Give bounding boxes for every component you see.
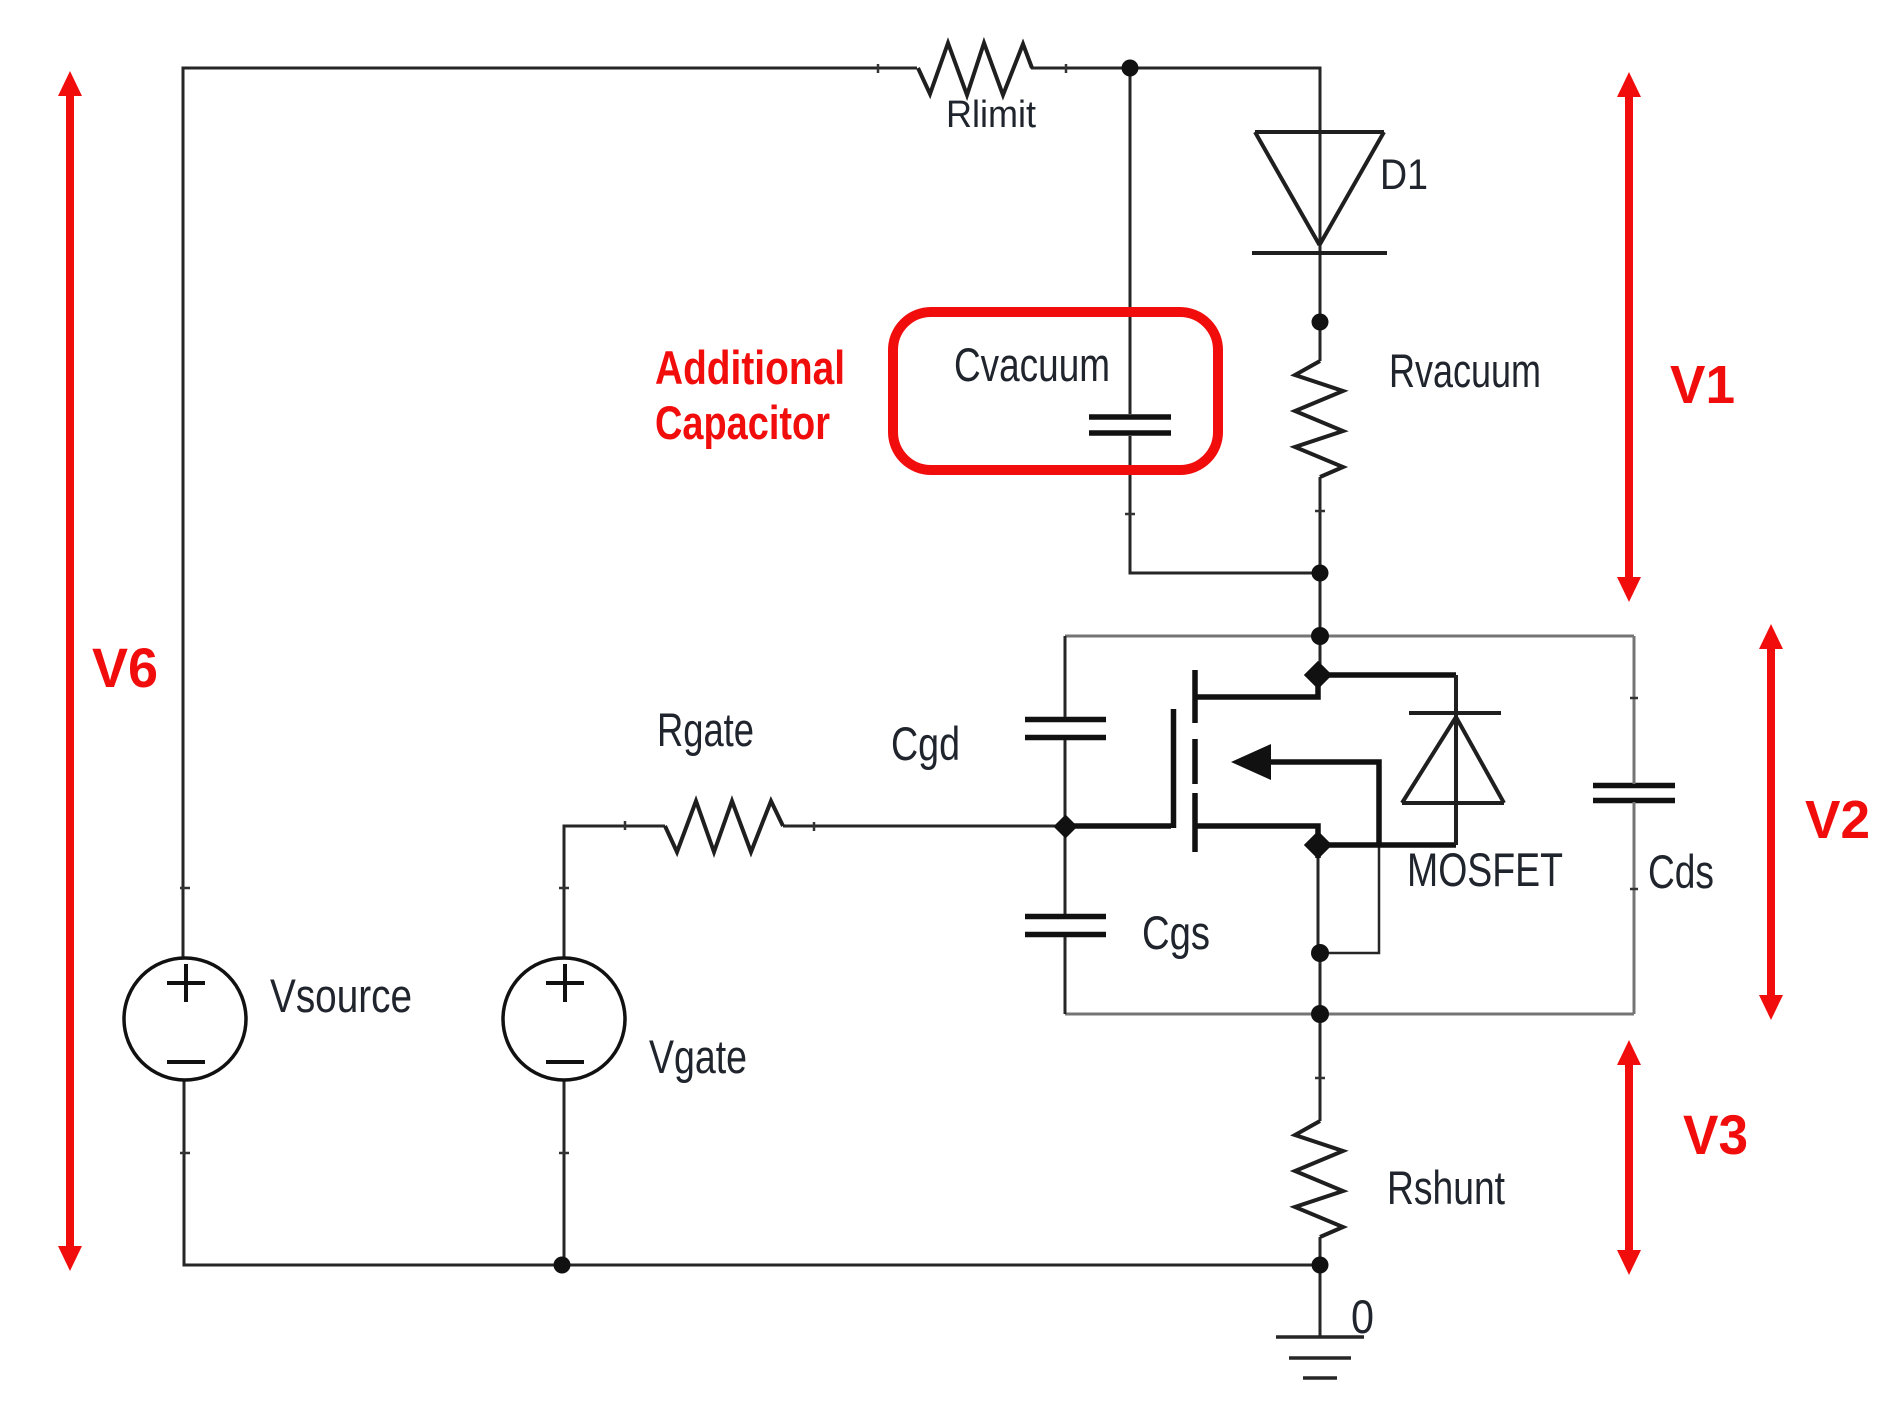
svg-text:Cgd: Cgd — [891, 717, 960, 770]
svg-text:V1: V1 — [1670, 355, 1735, 415]
svg-text:Cds: Cds — [1648, 845, 1714, 898]
svg-text:MOSFET: MOSFET — [1407, 843, 1563, 896]
svg-text:Capacitor: Capacitor — [655, 396, 830, 449]
svg-text:V3: V3 — [1683, 1103, 1748, 1166]
svg-text:Rvacuum: Rvacuum — [1389, 344, 1541, 397]
svg-text:0: 0 — [1351, 1290, 1374, 1343]
svg-text:D1: D1 — [1380, 151, 1428, 199]
svg-text:Rgate: Rgate — [657, 703, 754, 756]
svg-text:V2: V2 — [1805, 790, 1870, 850]
svg-text:Cvacuum: Cvacuum — [954, 338, 1110, 391]
svg-text:Rshunt: Rshunt — [1387, 1161, 1505, 1214]
svg-text:V6: V6 — [92, 636, 158, 699]
svg-text:Additional: Additional — [655, 341, 845, 394]
svg-text:Vgate: Vgate — [649, 1030, 747, 1083]
svg-text:Cgs: Cgs — [1142, 906, 1210, 959]
svg-text:Rlimit: Rlimit — [946, 94, 1036, 136]
svg-text:Vsource: Vsource — [270, 969, 412, 1022]
